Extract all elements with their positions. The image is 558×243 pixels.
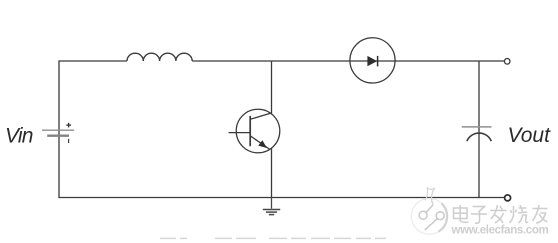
battery minus tick bbox=[68, 139, 70, 143]
watermark logo disc bbox=[411, 187, 447, 234]
svg-text:Vout: Vout bbox=[508, 124, 552, 147]
cropped caption fragment dashes bbox=[160, 237, 386, 239]
watermark char 友 bbox=[533, 205, 548, 223]
wire top rail left segment bbox=[58, 60, 127, 62]
battery plus sign bbox=[66, 123, 71, 128]
capacitor Cout curved plate bbox=[467, 133, 491, 141]
watermark char 电 bbox=[454, 205, 469, 222]
svg-text:www.elecfans.com: www.elecfans.com bbox=[451, 224, 549, 236]
transistor Q (NPN in circle) bbox=[236, 109, 280, 153]
watermark char 发 bbox=[491, 205, 507, 223]
diode anode triangle bbox=[367, 56, 377, 66]
svg-text:Vin: Vin bbox=[5, 125, 33, 148]
battery Vin (cell plates) bbox=[42, 130, 74, 136]
terminal output + bbox=[504, 59, 510, 65]
wire transistor emitter drop bbox=[271, 148, 273, 197]
capacitor Cout top plate bbox=[462, 126, 492, 128]
wire transistor base lead bbox=[229, 132, 251, 134]
wire bottom rail bbox=[58, 197, 504, 199]
ground bbox=[263, 198, 280, 215]
terminal output - bbox=[505, 195, 511, 201]
transistor emitter arrow bbox=[258, 140, 267, 148]
inductor L bbox=[127, 53, 192, 61]
wire top rail right segment bbox=[192, 60, 504, 62]
watermark char 烧 bbox=[510, 205, 529, 223]
watermark char 子 bbox=[471, 207, 487, 224]
wire left branch (Vin) bbox=[58, 61, 60, 198]
wire capacitor branch bbox=[478, 61, 480, 198]
diode D (in circle) bbox=[350, 38, 395, 83]
wire transistor collector drop bbox=[271, 61, 273, 114]
diode cathode bar bbox=[377, 56, 379, 67]
